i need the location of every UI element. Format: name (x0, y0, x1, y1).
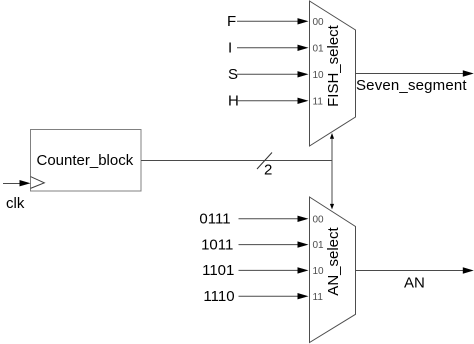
svg-text:10: 10 (313, 70, 325, 81)
arrowhead Seven_segment (463, 70, 474, 76)
svg-text:F: F (227, 13, 236, 30)
svg-text:01: 01 (313, 240, 325, 251)
svg-text:10: 10 (313, 266, 325, 277)
wire AN output (355, 270, 464, 272)
arrowhead clk input (20, 180, 31, 186)
svg-text:clk: clk (6, 195, 25, 212)
wire 0111 (239, 218, 299, 220)
arrowhead 0111 (298, 216, 309, 222)
svg-text:S: S (228, 66, 238, 83)
svg-text:I: I (228, 40, 232, 57)
wire Seven_segment output (355, 73, 464, 75)
wire 1110 (239, 295, 299, 297)
arrowhead select to AN_select (330, 204, 334, 210)
wire 1011 (239, 244, 299, 246)
wire clk input (3, 183, 21, 185)
arrowhead AN (463, 267, 474, 273)
arrowhead S (298, 71, 309, 77)
svg-text:1101: 1101 (202, 262, 234, 279)
wire H (237, 100, 298, 102)
mux AN_select (310, 197, 356, 343)
svg-text:FISH_select: FISH_select (325, 24, 342, 107)
arrowhead 1011 (298, 241, 309, 247)
svg-text:00: 00 (313, 17, 325, 28)
arrowhead 1110 (298, 293, 309, 299)
svg-text:Seven_segment: Seven_segment (356, 77, 467, 94)
arrowhead 1101 (298, 267, 309, 273)
wire F (237, 20, 298, 22)
arrowhead H (298, 98, 309, 104)
svg-text:AN: AN (404, 275, 425, 292)
wire counter output bus (141, 160, 332, 162)
wire I (237, 47, 298, 49)
clock wedge on counter block (31, 177, 45, 189)
arrowhead select to FISH_select (330, 133, 334, 139)
svg-text:AN_select: AN_select (325, 226, 342, 295)
svg-text:01: 01 (313, 43, 325, 54)
counter block U1 (31, 130, 142, 192)
svg-text:11: 11 (313, 96, 324, 107)
bus-width slash (257, 153, 272, 170)
svg-text:1011: 1011 (201, 236, 233, 253)
svg-text:2: 2 (264, 162, 272, 179)
arrowhead F (298, 18, 309, 24)
svg-text:11: 11 (313, 292, 324, 303)
svg-text:1110: 1110 (203, 288, 234, 305)
svg-text:00: 00 (313, 214, 325, 225)
wire S (237, 73, 298, 75)
wire 1101 (239, 269, 299, 271)
svg-text:0111: 0111 (199, 211, 230, 228)
svg-text:Counter_block: Counter_block (37, 152, 134, 169)
arrowhead I (298, 45, 309, 51)
wire select vertical (331, 135, 333, 206)
mux FISH_select (310, 1, 356, 146)
